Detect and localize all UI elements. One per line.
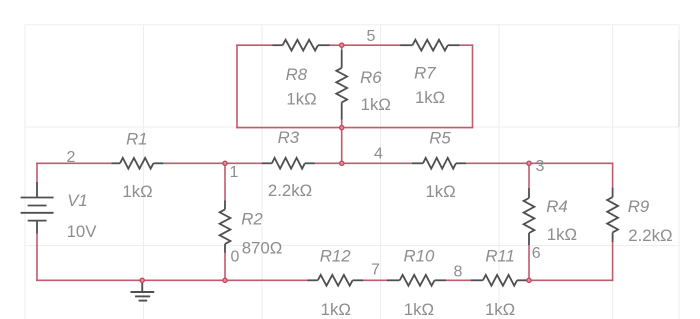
wire R2 top lead wire: [224, 163, 226, 200]
wire mid bus: R5 to node 3: [466, 162, 529, 164]
svg-text:R8: R8: [286, 65, 308, 84]
node 3 (junction dot): [527, 161, 531, 165]
resistor R12: [307, 275, 363, 286]
wire bottom bus: battery to ground: [37, 279, 142, 281]
svg-text:10V: 10V: [67, 222, 98, 241]
node ground junction (junction dot): [140, 278, 144, 282]
resistor R10: [387, 275, 446, 286]
resistor R7: [400, 40, 459, 51]
svg-text:R2: R2: [241, 210, 263, 229]
svg-text:R9: R9: [628, 197, 649, 216]
wire mid bus: node 4 to R5: [342, 162, 412, 164]
resistor R2: [220, 201, 231, 253]
sheet right edge: [678, 25, 680, 319]
resistor R1: [112, 158, 164, 169]
node 5 junction (junction dot): [340, 43, 344, 47]
wire top rect: left corner to R8: [237, 44, 272, 46]
wire R6 bottom lead wire: [341, 120, 343, 128]
wire battery top lead: [36, 163, 38, 182]
svg-text:870Ω: 870Ω: [242, 239, 283, 258]
wire R4 top lead wire: [528, 163, 530, 188]
svg-text:1: 1: [230, 164, 239, 181]
svg-text:4: 4: [374, 146, 383, 163]
node 4 (junction dot): [340, 161, 344, 165]
wire mid bus: battery to R1: [37, 162, 112, 164]
wire bottom bus: node 0 to R12: [225, 279, 307, 281]
battery V1: [21, 182, 54, 234]
wire node 5 branch down to node 4: [341, 128, 343, 164]
svg-text:6: 6: [532, 245, 541, 262]
wire top rect right edge: [472, 45, 474, 127]
ground symbol: [131, 280, 155, 300]
svg-text:R6: R6: [360, 68, 382, 87]
node 6 (junction dot): [527, 278, 531, 282]
wire bottom bus: node 6 to R9 branch: [529, 279, 613, 281]
svg-text:R5: R5: [429, 129, 451, 148]
svg-text:R7: R7: [414, 64, 436, 83]
node 1 (junction dot): [223, 161, 227, 165]
svg-text:1kΩ: 1kΩ: [404, 300, 434, 319]
resistor R6: [336, 50, 347, 119]
svg-text:1kΩ: 1kΩ: [361, 95, 391, 114]
svg-text:R10: R10: [404, 246, 435, 265]
wire top rect: R7 to right corner: [459, 44, 472, 46]
svg-text:1kΩ: 1kΩ: [547, 225, 577, 244]
resistor R5: [412, 158, 466, 169]
node 0 (junction dot): [223, 278, 227, 282]
wire bottom bus: R10 to R11 (node 8): [446, 279, 471, 281]
svg-text:3: 3: [536, 158, 545, 175]
svg-text:2: 2: [67, 149, 76, 166]
resistor R4: [524, 188, 535, 245]
wire R6 top lead wire: [341, 45, 343, 50]
wire bottom bus: R12 to R10 (node 7): [363, 279, 387, 281]
svg-text:1kΩ: 1kΩ: [425, 182, 455, 201]
svg-text:1kΩ: 1kΩ: [321, 300, 351, 319]
wire R9 bottom lead wire: [612, 242, 614, 280]
wire top rect bottom edge: [237, 127, 473, 129]
svg-text:1kΩ: 1kΩ: [286, 90, 316, 109]
svg-text:7: 7: [371, 262, 380, 279]
svg-text:2.2kΩ: 2.2kΩ: [268, 181, 312, 200]
resistor R8: [272, 40, 329, 51]
wire R4 bottom lead wire: [528, 245, 530, 280]
svg-text:R4: R4: [546, 197, 567, 216]
wire mid bus: R3 to node 4: [315, 162, 342, 164]
resistor R3: [262, 158, 315, 169]
svg-text:R11: R11: [485, 246, 515, 265]
svg-text:1kΩ: 1kΩ: [122, 182, 152, 201]
svg-text:R3: R3: [278, 128, 300, 147]
wire mid bus: R1 to node 1: [163, 162, 225, 164]
svg-text:2.2kΩ: 2.2kΩ: [628, 226, 672, 245]
node rect-bottom junction (junction dot): [340, 126, 344, 130]
wire mid bus: node 1 to R3: [225, 162, 262, 164]
svg-text:1kΩ: 1kΩ: [415, 88, 445, 107]
wire top rect: R8 to node 5: [330, 44, 342, 46]
svg-text:1kΩ: 1kΩ: [485, 300, 515, 319]
svg-text:V1: V1: [67, 191, 88, 210]
wire top rect left edge: [236, 45, 238, 127]
wire top rect: node 5 to R7: [342, 44, 401, 46]
wire R2 bottom lead wire: [224, 253, 226, 281]
wire mid bus: node 3 to R9 branch: [529, 162, 613, 164]
svg-text:R12: R12: [320, 246, 351, 265]
svg-text:5: 5: [367, 28, 376, 45]
svg-text:0: 0: [231, 249, 240, 266]
wire bottom bus: ground to node 0: [142, 279, 225, 281]
wire R9 top lead wire: [612, 163, 614, 187]
svg-text:8: 8: [454, 264, 463, 281]
resistor R9: [607, 188, 618, 242]
resistor R11: [471, 275, 529, 286]
wire battery bottom lead: [36, 234, 38, 281]
svg-text:R1: R1: [126, 130, 147, 149]
